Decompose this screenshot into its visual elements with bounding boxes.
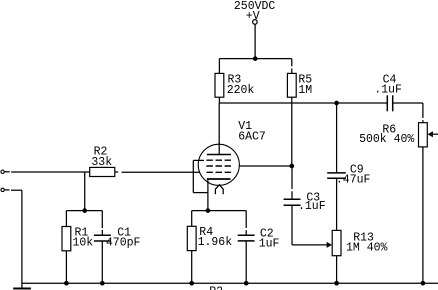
input terminal 2 [1, 188, 4, 191]
V1 grid g2 dashes [206, 165, 231, 167]
svg-text:470pF: 470pF [106, 237, 141, 250]
resistor R3 [218, 59, 220, 74]
potentiometer R6 [419, 123, 428, 147]
wire top supply rail [219, 58, 291, 60]
junction dot screen node [289, 164, 294, 169]
wire cathode node [192, 210, 247, 212]
capacitor C4 [386, 95, 388, 111]
junction dot +V rail [253, 56, 258, 61]
wire R2 to grid [115, 171, 118, 173]
junction dot R1 to rail [64, 281, 69, 286]
wire ground drop [21, 190, 23, 288]
capacitor C9 [336, 103, 338, 173]
wire input 2 to ground [4, 189, 9, 191]
V1 cathode lead [207, 179, 209, 211]
V1 grid g3 dashes [206, 159, 231, 161]
junction dot plate rail to C9 [334, 101, 339, 106]
svg-text:33k: 33k [91, 156, 112, 169]
wire +V terminal to top rail [254, 24, 256, 58]
svg-text:1M 40%: 1M 40% [346, 241, 388, 254]
svg-text:6AC7: 6AC7 [238, 130, 266, 143]
input terminal 1 [1, 170, 4, 173]
resistor R5 [291, 59, 293, 67]
V1 grid g1 dashes [206, 171, 231, 173]
junction dot R13 to rail [334, 281, 339, 286]
junction dot R1/C1 node [82, 208, 87, 213]
svg-text:500k 40%: 500k 40% [359, 133, 414, 146]
resistor R4 [191, 211, 193, 227]
svg-text:220k: 220k [227, 84, 255, 97]
vacuum tube V1 envelope [198, 144, 239, 185]
V1 plate bar [207, 154, 231, 156]
junction dot cathode node [206, 208, 211, 213]
svg-text:.1uF: .1uF [298, 200, 326, 213]
svg-text:1uF: 1uF [259, 238, 280, 251]
V1 heater filament [215, 185, 223, 190]
V1 suppressor tie bracket bottom [193, 192, 208, 194]
resistor R2 [90, 167, 115, 176]
wire plate rail [219, 102, 387, 104]
R6 wiper arrow [433, 133, 438, 135]
V1 cathode bar [207, 178, 231, 180]
wire C4 to R6 [422, 103, 424, 118]
svg-text:.47uF: .47uF [336, 173, 371, 186]
svg-text:P2: P2 [209, 285, 223, 290]
V1 suppressor tie bracket top [193, 159, 204, 161]
+V terminal circle [253, 20, 258, 25]
junction dot C1 to rail [100, 281, 105, 286]
potentiometer R13 [336, 178, 338, 230]
resistor R1 [65, 211, 67, 227]
junction dot R6 to rail [421, 281, 426, 286]
capacitor C2 [245, 211, 247, 228]
V1 suppressor tie bracket vertical [192, 160, 194, 192]
wire ground rail [22, 282, 438, 284]
wire R1/C1 node [66, 210, 102, 212]
V1 plate lead [218, 103, 220, 155]
svg-text:1.96k: 1.96k [198, 236, 233, 249]
wire input 1 to R2 [4, 171, 9, 173]
ground symbol [13, 287, 31, 289]
capacitor C1 [101, 211, 103, 229]
svg-text:.1uF: .1uF [374, 84, 402, 97]
wire R2 tap down to R1/C1 [84, 172, 86, 211]
svg-text:1M: 1M [298, 84, 312, 97]
junction dot C2 to rail [244, 281, 249, 286]
wire screen grid to R5/C3 node [240, 165, 292, 167]
R13 wiper arrow [292, 244, 327, 246]
junction dot R4 to rail [189, 281, 194, 286]
svg-text:10k: 10k [73, 237, 94, 250]
capacitor C3 [291, 166, 293, 189]
